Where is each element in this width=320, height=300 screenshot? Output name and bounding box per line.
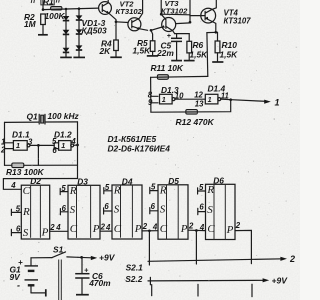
resistor R11: [157, 75, 168, 80]
diode VD column2 a: [76, 15, 83, 19]
wire node to R5: [151, 30, 153, 41]
wire VT4 emitter tee: [207, 31, 218, 33]
svg-text:2: 2: [49, 223, 55, 232]
svg-text:1,5K: 1,5K: [133, 46, 152, 56]
wire VT3 collector from top: [160, 0, 162, 14]
svg-text:-: -: [17, 281, 20, 291]
wire to VT4 base: [190, 15, 205, 17]
wire output line 2: [148, 259, 283, 262]
wire gate D1.1 out: [30, 144, 54, 146]
node feedback tap: [37, 144, 40, 147]
svg-text:КД503: КД503: [82, 26, 108, 36]
diode VD column2 b: [76, 29, 83, 33]
node VT4 emitter: [214, 31, 217, 34]
svg-text:4: 4: [152, 223, 158, 232]
svg-text:100 kHz: 100 kHz: [48, 111, 80, 121]
wire to R10: [217, 32, 219, 41]
ground under column1: [60, 56, 72, 58]
ground under R5: [147, 55, 158, 57]
svg-text:R10: R10: [222, 40, 238, 50]
svg-text:+: +: [167, 33, 171, 40]
svg-text:4: 4: [105, 223, 111, 232]
svg-text:6: 6: [104, 202, 109, 211]
svg-text:P: P: [226, 224, 234, 236]
svg-text:4: 4: [55, 223, 61, 232]
node VT4 base rail: [189, 21, 192, 24]
gate D1.1 input stubs: [5, 143, 14, 149]
S2.2 stub b: [197, 284, 199, 296]
svg-text:R12 470K: R12 470K: [176, 117, 215, 127]
wire feedback loop: [151, 100, 231, 113]
svg-text:S2.2: S2.2: [125, 274, 143, 284]
svg-text:D2-D6-К176ИЕ4: D2-D6-К176ИЕ4: [108, 144, 171, 154]
ground under R2: [38, 34, 48, 36]
wire D3 to D4: [100, 230, 112, 232]
svg-text:S: S: [114, 204, 120, 216]
wire oscillator box bottom with R13: [5, 164, 78, 166]
svg-text:S: S: [160, 203, 166, 215]
wire input node vertical: [150, 77, 152, 112]
node VT1/R4/VT2: [115, 20, 118, 23]
node feedback: [229, 98, 232, 101]
arrow output 2: [280, 257, 287, 261]
resistor R2: [41, 14, 46, 25]
svg-text:P: P: [41, 227, 49, 239]
svg-text:2: 2: [100, 223, 106, 232]
wire tap to R13 rail: [37, 145, 39, 165]
diode VD column1 a: [63, 16, 70, 20]
svg-text:1,5K: 1,5K: [220, 50, 239, 60]
svg-text:12: 12: [194, 90, 203, 99]
diode VD column1 c: [63, 48, 70, 52]
svg-text:S: S: [70, 204, 76, 216]
wire gate D1.2 out: [74, 144, 78, 146]
resistor R12: [186, 110, 198, 115]
svg-text:2: 2: [289, 254, 295, 264]
svg-text:R6: R6: [193, 40, 204, 50]
gate D1.3 input stubs: [151, 96, 158, 103]
gate D1.1: [13, 141, 27, 151]
svg-text:4: 4: [199, 223, 205, 232]
crystal Q1: [39, 114, 45, 124]
wire collector node to VT4 rail: [161, 13, 190, 16]
label R1 box: [41, 0, 54, 5]
svg-text:P: P: [134, 223, 142, 235]
gate D1.2 input stubs: [54, 143, 58, 149]
node VT3 collector: [160, 13, 163, 16]
svg-text:+9V: +9V: [99, 252, 116, 262]
wire oscillator box right: [77, 122, 79, 179]
wire gate1 to gate2: [175, 98, 205, 100]
diode VD column1 b: [63, 30, 70, 34]
wire VT3 emitter rail: [175, 33, 190, 35]
resistor R1: [51, 7, 62, 10]
svg-text:S2.1: S2.1: [126, 263, 144, 273]
resistor R6: [187, 41, 192, 53]
ground under column2: [73, 56, 85, 58]
svg-text:4: 4: [10, 181, 16, 190]
svg-text:6: 6: [199, 203, 204, 212]
svg-text:R11 10K: R11 10K: [151, 63, 184, 73]
ground under C6: [76, 294, 89, 296]
transistor VT3: [162, 18, 176, 32]
svg-text:2: 2: [235, 221, 241, 230]
resistor R4: [114, 40, 119, 51]
wire VT4 base rail from top: [189, 0, 191, 23]
svg-text:+9V: +9V: [272, 276, 289, 286]
wire oscillator box left: [4, 122, 6, 165]
diode VD column2 c: [76, 45, 83, 49]
node S2 tap a: [148, 229, 151, 232]
svg-text:R: R: [22, 206, 30, 218]
svg-text:КТ3107: КТ3107: [224, 16, 252, 25]
S2.2 stub a: [151, 285, 153, 296]
node pin4: [76, 144, 79, 147]
svg-text:D1.2: D1.2: [54, 130, 72, 140]
svg-text:C: C: [114, 223, 122, 235]
svg-text:R: R: [113, 185, 121, 197]
S2.2 stub c: [251, 284, 253, 296]
wire node to VT2 base: [116, 21, 128, 24]
wire R10 to ground: [217, 53, 219, 61]
svg-text:2K: 2K: [99, 46, 112, 56]
wire R5 to ground: [152, 51, 154, 55]
svg-text:470m: 470m: [88, 278, 111, 288]
wire to R6: [188, 34, 190, 42]
svg-text:R: R: [159, 184, 167, 196]
wire D6 out and down: [235, 230, 251, 263]
wire diode column 1: [65, 9, 67, 57]
wire D2 to D3: [50, 230, 68, 232]
wire VT1 emitter to node: [109, 13, 116, 22]
svg-text:6: 6: [151, 202, 156, 211]
ground under R6: [184, 60, 195, 62]
svg-text:13: 13: [195, 100, 204, 109]
wire R6 to ground: [188, 53, 190, 60]
switch S1 pole link: [59, 260, 62, 300]
wire R2 to ground: [42, 25, 44, 35]
svg-text:2: 2: [0, 146, 6, 155]
ground under R10: [212, 61, 223, 63]
svg-text:P: P: [92, 223, 100, 235]
wire D5 to D6: [188, 229, 206, 231]
svg-text:КТ3102: КТ3102: [116, 7, 143, 16]
svg-text:D2: D2: [30, 176, 41, 186]
svg-text:C: C: [70, 223, 78, 235]
ground under R4: [110, 56, 122, 58]
resistor R10: [215, 41, 220, 53]
arrow output 1: [264, 100, 271, 104]
svg-text:+: +: [84, 266, 89, 275]
svg-text:1: 1: [208, 95, 212, 104]
node diode col1: [65, 8, 68, 11]
arrow +9V line: [263, 278, 270, 282]
wire R4 to ground: [115, 51, 117, 57]
svg-text:D1-К561ЛЕ5: D1-К561ЛЕ5: [108, 134, 157, 144]
gate D1.2: [59, 141, 71, 151]
transistor VT1: [99, 2, 112, 15]
svg-text:C: C: [207, 223, 215, 235]
node R1 left junction: [42, 8, 45, 11]
capacitor C6: [81, 257, 83, 273]
wire D4 to D5: [142, 230, 158, 232]
svg-text:P: P: [180, 223, 188, 235]
wire top rail to VT1 base: [43, 8, 99, 10]
wire tap a down: [148, 231, 150, 265]
wire top-left vertical feed: [42, 0, 44, 10]
svg-text:22m: 22m: [156, 48, 174, 58]
ground under C5: [171, 60, 182, 62]
svg-text:R1: R1: [43, 0, 54, 7]
S2.2 contact tick: [149, 277, 151, 285]
svg-text:1,5K: 1,5K: [190, 50, 209, 60]
node S2 tap b: [195, 229, 198, 232]
wire tap b down: [195, 231, 197, 265]
transistor VT2: [128, 18, 141, 31]
svg-text:C: C: [23, 185, 31, 197]
svg-text:1: 1: [162, 95, 166, 104]
svg-text:2: 2: [142, 222, 148, 231]
svg-text:C: C: [160, 223, 168, 235]
node emitters VT2/VT3: [150, 29, 153, 32]
svg-text:2: 2: [188, 222, 194, 231]
wire R11 rail: [151, 75, 208, 78]
wire +9V switched line: [148, 279, 266, 282]
op-gate D1.3: [160, 94, 173, 104]
wire C5 to ground: [176, 41, 178, 59]
gate D1.4: [205, 94, 218, 104]
svg-text:R: R: [206, 184, 214, 196]
wire output 1: [221, 99, 267, 101]
resistor R5: [150, 41, 155, 52]
svg-text:1: 1: [16, 141, 20, 150]
wire to C5: [176, 34, 178, 38]
node C6 tap: [80, 256, 83, 259]
svg-text:1: 1: [61, 141, 65, 150]
svg-text:1: 1: [275, 97, 280, 107]
wire clock line to D2: [3, 179, 77, 190]
transistor VT4: [201, 8, 216, 23]
svg-text:6: 6: [52, 146, 57, 155]
arrow +9V at S1: [91, 256, 97, 260]
wire battery common: [31, 292, 46, 294]
wire diode column 2: [78, 9, 80, 57]
svg-text:S: S: [207, 204, 213, 216]
wire node to R4: [115, 22, 117, 40]
svg-text:Q1: Q1: [27, 112, 39, 122]
wire VT3 to gate rail right: [176, 22, 190, 25]
resistor R13: [12, 163, 24, 168]
wire VT4 emitter down leg: [206, 33, 209, 77]
svg-text:1M: 1M: [24, 19, 37, 29]
node diode col2: [78, 7, 81, 10]
capacitor C5: [171, 37, 182, 39]
svg-text:100K: 100K: [45, 11, 66, 21]
svg-text:R: R: [69, 185, 77, 197]
svg-text:S: S: [23, 227, 29, 239]
wire oscillator box top: [5, 121, 78, 124]
